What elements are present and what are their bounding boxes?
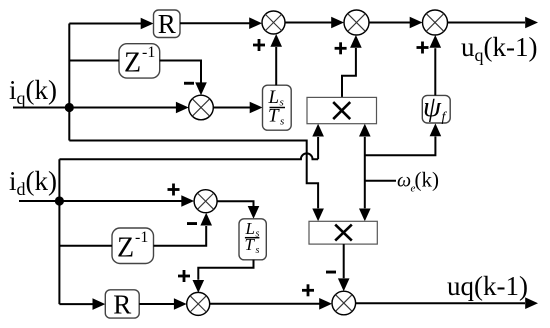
gain block Ls/Ts d-axis: [239, 219, 266, 260]
node id junction: [55, 196, 64, 205]
svg-text:T: T: [268, 106, 280, 127]
gain block Ls/Ts q-axis: [263, 85, 292, 130]
plus sign at S5: [168, 184, 180, 196]
node iq junction: [65, 103, 74, 112]
wire S2 to S3: [369, 17, 423, 29]
label uq(k-1): [447, 271, 528, 301]
gain block R q-axis: [154, 9, 181, 39]
svg-text:Z: Z: [124, 48, 141, 79]
flux block psi_f: [422, 91, 450, 125]
wire id input: [19, 200, 59, 202]
minus sign at S4: [184, 82, 194, 85]
summing junction S2: [344, 10, 369, 35]
wire omega input stub: [365, 180, 396, 182]
wire S7 to S6: [210, 298, 332, 310]
gain block R d-axis: [105, 290, 139, 320]
label iq(k): [9, 75, 57, 108]
label u_q(k-1): [461, 32, 537, 65]
wire S5 to Ls/Ts block d: [217, 201, 259, 219]
plus sign at S2: [335, 42, 347, 54]
svg-text:s: s: [280, 116, 284, 128]
wire id junction vertical: [58, 159, 60, 304]
wire id to S5: [59, 195, 194, 207]
wire id rail to R d-axis: [59, 298, 105, 310]
wire omega branch to psi_f: [365, 123, 441, 155]
label omega_e(k): [397, 168, 439, 195]
summing junction S3: [423, 10, 448, 35]
svg-text:uq(k-1): uq(k-1): [461, 32, 537, 65]
svg-text:ω: ω: [397, 170, 411, 192]
svg-text:-1: -1: [142, 44, 155, 61]
wire iq junction vertical: [68, 24, 70, 141]
summing junction S1: [262, 11, 285, 34]
minus sign at S6: [326, 271, 336, 274]
svg-text:-1: -1: [135, 229, 148, 246]
wire S4 to Ls/Ts block: [213, 102, 262, 114]
plus sign at S6: [302, 284, 314, 296]
svg-text:s: s: [280, 97, 284, 109]
delay block Z-1 d-axis: [112, 228, 154, 264]
plus sign at S7: [178, 270, 190, 282]
wire id to Z2: [59, 245, 112, 247]
minus sign at S5: [187, 222, 197, 225]
delay block Z-1 q-axis: [119, 44, 160, 79]
multiplier box M1: [307, 97, 377, 123]
summing junction S5: [194, 190, 217, 213]
svg-text:id(k): id(k): [9, 166, 57, 199]
wire psi_f to S3: [430, 35, 442, 95]
svg-text:Z: Z: [117, 233, 134, 264]
wire iq top to R: [69, 18, 153, 30]
svg-text:T: T: [245, 235, 256, 254]
wire iq to S4: [69, 102, 188, 114]
wire multiplier box M1 to S2: [342, 35, 362, 97]
wire output uq: [448, 17, 539, 29]
label id(k): [9, 166, 57, 199]
wire R to summer S1: [180, 17, 262, 29]
wire Z1 to subtractor S4: [160, 61, 207, 96]
svg-text:iq(k): iq(k): [9, 75, 57, 108]
wire M2 to S6: [338, 244, 350, 291]
wire output uq lower: [356, 297, 538, 309]
multiplier box M2: [309, 221, 377, 244]
wire iq to Z1: [69, 60, 119, 62]
wire iq rail down to M2: [69, 141, 324, 222]
svg-text:R: R: [113, 290, 131, 320]
wire Ls/Ts up to S1: [270, 34, 282, 85]
summing junction S4: [189, 95, 214, 120]
wire omega vertical: [359, 124, 371, 222]
wire id feed with hop to M1: [59, 124, 324, 160]
wire Z2 to S5: [154, 213, 213, 246]
summing junction S7: [187, 292, 210, 315]
summing junction S6: [332, 291, 356, 315]
wire R to S7: [139, 298, 187, 310]
wire Ls/Ts d to S7: [193, 260, 254, 293]
svg-text:ψ: ψ: [423, 91, 442, 123]
wire iq input: [13, 107, 69, 109]
wire S1 to S2: [285, 17, 344, 29]
svg-text:s: s: [256, 245, 260, 256]
svg-text:R: R: [158, 9, 176, 39]
plus sign at S3: [417, 42, 429, 54]
svg-text:uq(k-1): uq(k-1): [447, 271, 528, 301]
plus sign at S1: [253, 39, 265, 51]
svg-text:(k): (k): [415, 168, 440, 192]
